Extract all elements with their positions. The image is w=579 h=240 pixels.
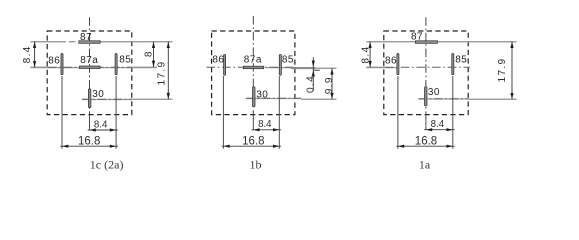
svg-text:30: 30: [428, 87, 440, 98]
svg-text:8.4: 8.4: [22, 45, 33, 63]
svg-text:87a: 87a: [80, 55, 98, 66]
svg-text:16.8: 16.8: [242, 136, 264, 148]
svg-text:85: 85: [119, 54, 131, 65]
svg-text:9.9: 9.9: [324, 76, 335, 94]
svg-text:0.4: 0.4: [306, 75, 317, 93]
svg-text:30: 30: [92, 89, 104, 100]
svg-text:16.8: 16.8: [415, 136, 437, 148]
svg-text:87: 87: [411, 32, 423, 43]
svg-text:17.9: 17.9: [497, 57, 508, 82]
svg-text:85: 85: [282, 54, 294, 65]
svg-text:16.8: 16.8: [78, 136, 100, 148]
svg-text:8.4: 8.4: [361, 46, 372, 64]
svg-text:8: 8: [143, 50, 154, 57]
svg-text:85: 85: [455, 54, 467, 65]
svg-text:8.4: 8.4: [94, 119, 108, 130]
svg-text:1a: 1a: [419, 158, 431, 172]
svg-text:87: 87: [80, 32, 92, 43]
svg-text:1b: 1b: [250, 158, 262, 172]
svg-text:86: 86: [48, 55, 60, 66]
svg-text:30: 30: [256, 90, 268, 101]
svg-text:87a: 87a: [244, 54, 262, 65]
svg-text:8.4: 8.4: [258, 119, 272, 130]
svg-text:86: 86: [212, 54, 224, 65]
svg-text:8.4: 8.4: [431, 119, 445, 130]
svg-text:86: 86: [385, 55, 397, 66]
svg-text:1c (2a): 1c (2a): [90, 158, 124, 172]
svg-text:17.9: 17.9: [157, 60, 168, 85]
